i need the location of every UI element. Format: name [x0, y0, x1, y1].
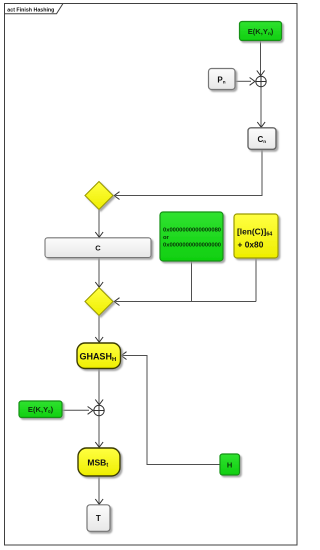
svg-text:E(K,Yn): E(K,Yn)	[248, 27, 274, 36]
xor XOR2	[94, 405, 104, 415]
wire Cn down then left to diamond D1	[116, 150, 263, 196]
node E(K,Y0)	[19, 401, 62, 418]
svg-text:act Finish Hashing: act Finish Hashing	[7, 7, 54, 13]
svg-text:0x0000000000000080: 0x0000000000000080	[163, 228, 221, 234]
wire Pn to XOR1	[235, 80, 251, 82]
svg-text:E(K,Y0): E(K,Y0)	[28, 405, 54, 414]
node C	[45, 238, 151, 258]
node Pn	[209, 69, 236, 90]
node pad constant (green hex box)	[160, 212, 223, 261]
wire pad-constant box down to junction	[191, 261, 193, 302]
node E(K,Yn)	[240, 22, 282, 41]
frame tab act Finish Hashing	[5, 4, 64, 14]
node H	[220, 454, 240, 475]
wire MSBt to T	[98, 476, 100, 503]
wire C to D2	[98, 258, 100, 287]
wire D2 to GHASH	[98, 316, 100, 342]
node [len(C)]64 + 0x80	[234, 214, 278, 258]
svg-text:MSBt: MSBt	[87, 457, 108, 468]
wire junction left to D2	[116, 301, 257, 303]
svg-text:C: C	[95, 243, 101, 252]
wire H feedback to GHASH	[123, 356, 221, 465]
svg-text:+ 0x80: + 0x80	[238, 240, 264, 250]
node T	[87, 505, 110, 532]
decision D2	[85, 288, 113, 316]
wire D1 to C	[98, 210, 100, 237]
xor XOR1	[256, 76, 266, 86]
svg-text:T: T	[96, 514, 101, 523]
node GHASH_H	[77, 343, 121, 369]
svg-text:H: H	[227, 460, 232, 469]
wire GHASH to XOR2	[98, 369, 100, 404]
decision D1	[85, 182, 113, 210]
wire XOR2 to MSBt	[98, 416, 100, 447]
node Cn	[248, 128, 276, 150]
wire len box down to junction	[255, 258, 257, 302]
svg-text:0x0000000000000000: 0x0000000000000000	[163, 243, 221, 249]
node MSBt	[78, 448, 120, 476]
wire E(K,Yn) to XOR1	[260, 41, 262, 76]
wire E(K,Y0) to XOR2	[62, 409, 89, 411]
svg-text:or: or	[163, 235, 170, 241]
svg-text:GHASHH: GHASHH	[79, 352, 116, 363]
wire XOR1 to Cn	[260, 87, 262, 127]
